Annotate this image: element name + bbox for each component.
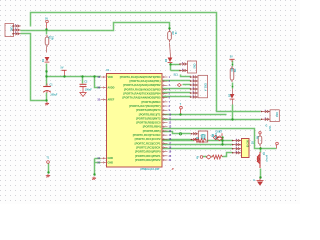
transistor Q1	[257, 152, 260, 168]
connector CN1	[5, 24, 14, 37]
pin CN2-1	[180, 63, 188, 66]
svg-text:1: 1	[193, 76, 194, 78]
wire diamond flag to CN3 pin3	[183, 84, 191, 86]
wire GND drop	[94, 159, 96, 175]
wire side node stem	[276, 145, 278, 149]
svg-text:4: 4	[193, 87, 194, 90]
svg-text:[PORTC,RC2]/CCP1: [PORTC,RC2]/CCP1	[135, 141, 161, 145]
svg-text:2: 2	[15, 29, 16, 31]
node green circle	[179, 133, 181, 135]
connector CN2	[188, 61, 197, 73]
svg-text:U1: U1	[106, 68, 110, 72]
svg-text:5V: 5V	[61, 67, 64, 70]
module U2	[242, 139, 250, 158]
junction gnd q1	[259, 176, 261, 178]
svg-text:[PORTD,RD0]/PSP0: [PORTD,RD0]/PSP0	[135, 150, 161, 154]
ground flag test point	[46, 174, 50, 177]
node R5 in	[200, 156, 203, 159]
node test point	[47, 161, 50, 164]
wire CN1 pin2 to R2 top	[21, 23, 170, 31]
pin CN1-1	[13, 25, 21, 28]
svg-text:[PORTB,RB2]/INT2: [PORTB,RB2]/INT2	[136, 116, 161, 120]
pin CN4-2	[262, 118, 271, 121]
svg-text:SCL: SCL	[174, 73, 179, 76]
wire U1 XTAL2 to X1 pin2	[163, 139, 191, 141]
resistor R1	[45, 35, 49, 47]
wire to CN2 pin1	[171, 64, 181, 66]
U1 left pins	[101, 76, 107, 78]
wire U1 to R4	[163, 140, 195, 142]
pin U2-3	[233, 147, 241, 150]
svg-text:CK: CK	[211, 134, 213, 138]
pin CN1-3	[13, 32, 21, 35]
wire R6 node stem	[260, 147, 262, 148]
wire node to diamond	[203, 156, 207, 158]
svg-text:16MHz: 16MHz	[214, 133, 217, 141]
junction module pin1 net	[221, 139, 223, 141]
wire U1 to CN4 pin2	[163, 119, 261, 121]
wire AVDD drop	[95, 77, 101, 88]
ground symbol Q1	[257, 179, 264, 181]
crystal X1	[198, 131, 207, 142]
connector CN3	[198, 75, 208, 98]
svg-text:CN4: CN4	[275, 112, 278, 118]
svg-text:[PORTA,RA5]/AN4(MOSI)PB5: [PORTA,RA5]/AN4(MOSI)PB5	[123, 96, 161, 100]
pin CN3-2	[191, 80, 199, 83]
svg-text:[PORTA,RA1]/AN1(PB1): [PORTA,RA1]/AN1(PB1)	[130, 79, 161, 83]
pin U2-1	[233, 139, 241, 142]
junction power flag	[63, 75, 65, 77]
wire U1 to module pin3	[163, 148, 233, 150]
wire R4 to module pin1	[207, 140, 233, 142]
svg-text:[PORTB,RB3]/OC0: [PORTB,RB3]/OC0	[136, 121, 161, 125]
wire power to R3	[232, 61, 234, 67]
pin CN3-5	[191, 92, 199, 95]
net flag diamond small	[177, 83, 181, 86]
svg-text:[PORTD,RD1]/PSP1: [PORTD,RD1]/PSP1	[135, 154, 161, 158]
wire power flag stem	[64, 71, 66, 77]
junction GND drop	[93, 173, 95, 175]
svg-text:1: 1	[265, 110, 266, 112]
node top of R1	[46, 20, 49, 23]
svg-text:AVDD: AVDD	[108, 87, 115, 90]
capacitor C2	[80, 84, 87, 92]
LED D2	[168, 58, 173, 63]
wire U1 GND pin a	[95, 158, 101, 160]
LED D1	[45, 57, 50, 62]
wire diamond to R5	[212, 156, 213, 158]
svg-text:[PORTB,RB0]/INT0: [PORTB,RB0]/INT0	[136, 108, 161, 112]
svg-text:[PORTA]/MISO: [PORTA]/MISO	[141, 100, 161, 104]
svg-text:2: 2	[265, 118, 266, 120]
wire Q1 node to side node	[261, 148, 277, 150]
svg-text:1: 1	[236, 139, 237, 141]
svg-text:3: 3	[15, 32, 16, 34]
wire LED3 cathode down	[232, 105, 234, 120]
pin CN3-6	[191, 96, 199, 99]
net flag diamond pin	[218, 137, 221, 139]
svg-text:2: 2	[193, 80, 194, 82]
wire LED3 out	[232, 100, 234, 105]
svg-text:AREF: AREF	[108, 99, 115, 102]
resistor R5	[212, 155, 223, 159]
svg-text:10k: 10k	[51, 36, 54, 41]
junction GND node left	[45, 99, 47, 101]
svg-text:[PORTB,RB1]/T1: [PORTB,RB1]/T1	[139, 112, 161, 116]
svg-text:-P: -P	[171, 167, 174, 171]
pin CN4-1	[262, 110, 271, 113]
junction LED1 net	[45, 70, 47, 72]
svg-text:VDD: VDD	[108, 76, 113, 79]
svg-text:[PORTA,RA0]/AN0(PCINT0)PB0: [PORTA,RA0]/AN0(PCINT0)PB0	[120, 75, 161, 79]
junction reset node	[179, 113, 181, 115]
svg-text:3: 3	[236, 147, 237, 149]
wire LED1 cathode to C1	[46, 64, 48, 86]
svg-text:1: 1	[182, 63, 183, 65]
node side	[276, 142, 279, 145]
net flag diamond R5	[206, 155, 211, 159]
LED D3	[230, 94, 235, 99]
wire top node stem	[46, 23, 48, 30]
svg-text:[PORTB,RB5]: [PORTB,RB5]	[143, 129, 161, 133]
resistor R3	[230, 66, 234, 82]
svg-text:5: 5	[193, 92, 194, 94]
ground flag left	[45, 102, 49, 105]
power flag right	[229, 58, 234, 60]
IC U1 body	[107, 74, 163, 168]
svg-text:[PORTA,RA7]/SCK(PB7): [PORTA,RA7]/SCK(PB7)	[129, 104, 160, 108]
wire U1 to CN3 pin2	[163, 80, 191, 82]
wire U1 to CN3 pin5	[163, 92, 191, 94]
svg-text:[PORTB,RB4]: [PORTB,RB4]	[143, 125, 161, 129]
ground flag U1	[92, 177, 96, 180]
connector CN4	[270, 110, 279, 122]
junction C2 tap	[81, 75, 83, 77]
svg-text:HC-05: HC-05	[246, 141, 248, 148]
pin CN1-2	[13, 29, 21, 32]
wire to CN2 pin2	[171, 70, 181, 72]
wire R1 to LED1	[46, 47, 48, 53]
svg-text:G: G	[253, 180, 255, 182]
resistor R4	[194, 139, 206, 143]
pin CN3-1	[191, 76, 199, 79]
pin U2-2	[233, 143, 241, 146]
wire U1 reset net	[163, 114, 227, 116]
junction R3 top	[232, 64, 234, 66]
junction AVDD tap	[93, 75, 95, 77]
wire U1 to CN3 pin6	[163, 96, 191, 98]
junction R1 node	[45, 28, 47, 30]
wire VDD rail to U1	[47, 76, 101, 78]
pin CN2-2	[180, 69, 188, 72]
junction diamond net	[221, 136, 223, 138]
svg-text:2: 2	[236, 143, 237, 145]
svg-text:XT: XT	[219, 130, 223, 133]
wire test node to GND flag	[48, 164, 50, 173]
svg-text:100uF: 100uF	[50, 94, 57, 97]
net port red stub	[221, 133, 223, 136]
svg-text:[PORTA,RA4]/T0CKI(SS)PB4: [PORTA,RA4]/T0CKI(SS)PB4	[123, 92, 161, 96]
svg-text:BC547: BC547	[265, 155, 268, 163]
svg-text:ATMEGA16-16P: ATMEGA16-16P	[140, 167, 160, 171]
junction CN2 tap	[169, 63, 171, 65]
pin CN3-4	[191, 88, 199, 91]
svg-text:6: 6	[193, 96, 194, 98]
svg-text:[PORTD,RD2]/PSP2: [PORTD,RD2]/PSP2	[135, 158, 161, 162]
svg-text:5V: 5V	[230, 55, 233, 58]
resistor R6	[258, 134, 262, 146]
pin CN3-3	[191, 84, 199, 87]
wire U1 long net to Q1 collector node	[163, 129, 261, 149]
net flag diamond OSC	[217, 136, 223, 141]
svg-text:[PORTA,RA3]/AN3(OC0)PB3: [PORTA,RA3]/AN3(OC0)PB3	[124, 87, 161, 91]
svg-text:G: G	[266, 125, 268, 128]
U1 right pins	[162, 76, 168, 78]
svg-text:GND: GND	[108, 161, 114, 164]
svg-text:[PORTA,RA2]/AN2(AIN0)PB2: [PORTA,RA2]/AN2(AIN0)PB2	[123, 83, 161, 87]
ground symbol under C2	[80, 93, 86, 97]
svg-text:GND: GND	[108, 157, 114, 160]
svg-text:5V: 5V	[45, 18, 48, 21]
wire VIN net: CN1 pin1 top rail to CN4 pin1	[31, 13, 261, 112]
svg-text:[PORTC,RC1]/CCP2: [PORTC,RC1]/CCP2	[135, 137, 161, 141]
junction Q1 node	[259, 147, 261, 149]
pin X1-1	[191, 132, 198, 135]
wire C1 bottom to GND flag	[46, 93, 48, 101]
pin U2-4	[233, 151, 241, 154]
pin X1-2	[191, 138, 198, 141]
wire U1 to CN3 pin4	[163, 88, 191, 90]
svg-text:4: 4	[236, 150, 237, 153]
node R6 top	[259, 132, 261, 134]
wire R3-LED3	[232, 89, 234, 95]
wire node stem	[180, 109, 182, 115]
junction LED3 net	[231, 118, 233, 120]
junction R3 bottom	[232, 86, 234, 88]
wire U1 XTAL1 to X1 pin1	[163, 132, 191, 134]
wire R1 top node crossing	[46, 30, 48, 35]
wire U1 to module pin2	[163, 144, 233, 146]
wire Q1 emitter to GND	[260, 169, 262, 179]
net flag diamond CLK	[213, 135, 217, 139]
svg-text:CN3_A: CN3_A	[203, 83, 206, 91]
power flag +5V	[61, 69, 66, 71]
svg-text:1: 1	[15, 25, 16, 27]
wire R5 to module pin4 riser	[223, 153, 233, 157]
wire U1 GND pin b	[95, 162, 101, 164]
wire LED2 cathode split	[170, 63, 172, 71]
wire net port vertical	[222, 137, 224, 145]
svg-text:[PORTC,RC3]/SCK: [PORTC,RC3]/SCK	[136, 145, 160, 149]
junction R2 top	[168, 27, 170, 29]
svg-text:OUT: OUT	[268, 126, 270, 131]
svg-text:CN1: CN1	[9, 27, 12, 33]
resistor R2	[168, 30, 172, 43]
wire node to Q1	[260, 149, 262, 153]
wire R3 to LED3	[232, 83, 234, 89]
svg-text:3: 3	[193, 84, 194, 86]
wire C2 drop	[82, 77, 84, 84]
svg-text:2: 2	[182, 69, 183, 71]
wire CN1 pin3 to GND node	[21, 34, 47, 101]
wire R2 to LED2	[170, 43, 171, 58]
capacitor C1	[43, 84, 51, 94]
svg-text:[PORTC,RC0]/T1OSO: [PORTC,RC0]/T1OSO	[133, 133, 162, 137]
wire net to CN3 pin1	[181, 75, 191, 77]
junction module net	[221, 143, 223, 145]
svg-text:CN2: CN2	[192, 64, 195, 70]
node J1	[180, 106, 183, 109]
svg-text:100nF: 100nF	[85, 88, 92, 91]
junction VDD rail a	[45, 75, 47, 77]
junction test gnd	[47, 171, 49, 173]
